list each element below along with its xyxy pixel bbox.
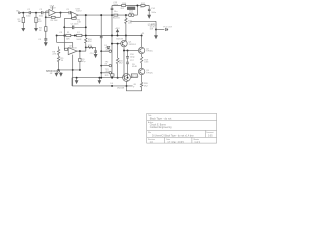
label +35V [115, 28, 121, 30]
svg-text:Sheets: Sheets [193, 138, 199, 141]
node bias top [127, 50, 129, 52]
wire mid rail [57, 35, 142, 37]
label under rail [117, 39, 124, 41]
svg-text:PL1 OUT: PL1 OUT [163, 26, 172, 28]
node x86 y47 [85, 46, 87, 48]
node x112 y43 [111, 43, 113, 45]
label U1B [76, 8, 83, 12]
label R10 [88, 39, 93, 43]
resistor R14 on bus [114, 14, 118, 16]
svg-text:1.0: 1.0 [150, 142, 154, 144]
wire feedback U1A [46, 16, 61, 18]
wire C5 to U1B [70, 12, 73, 14]
label 1N4148 [117, 88, 125, 90]
wire C2 to C3 [31, 12, 42, 14]
svg-text:22K: 22K [52, 54, 56, 56]
label RL1 [129, 11, 134, 15]
svg-text:F2: F2 [77, 32, 80, 34]
svg-text:C3: C3 [39, 9, 43, 11]
label C6 [71, 24, 80, 26]
wire left fb vertical [63, 18, 65, 49]
label R20 [144, 83, 149, 87]
wire x112 vertical [111, 15, 113, 78]
node bus x112 [111, 14, 113, 16]
wire U2 vplus pin [72, 42, 74, 47]
wire R19 to Q3 [141, 63, 143, 68]
node x117 bottom [117, 77, 119, 79]
node rail x126 [125, 35, 127, 37]
diode D3 arrow [98, 78, 101, 84]
capacitor C11 [100, 36, 103, 37]
node junction A [22, 12, 24, 14]
label F1 [59, 32, 70, 41]
svg-text:C4: C4 [38, 39, 42, 41]
node output junction [155, 29, 157, 31]
label TP1 [105, 47, 110, 51]
node rail x117 [117, 35, 119, 37]
wire output down [155, 21, 157, 29]
resistor R1 [22, 17, 24, 22]
connector PL2 port [57, 70, 60, 73]
node fb rail [63, 35, 65, 37]
svg-text:Caldwell Engineering: Caldwell Engineering [150, 126, 172, 129]
wire R20 corner [126, 86, 141, 91]
wire y47 right [86, 46, 96, 48]
wire Q2 base from bias [124, 50, 138, 52]
resistor R6 [72, 18, 76, 20]
node Q1 emitter base wire [123, 50, 125, 52]
ground output [155, 36, 158, 39]
wire stub A [101, 50, 109, 52]
svg-text:D:\Users\C\ Black Tiger - d: D:\Users\C\ Black Tiger - do not v1.4.ds… [152, 135, 194, 138]
node x112 y77 [111, 77, 113, 79]
svg-text:22K: 22K [128, 23, 132, 25]
node rail stub C [100, 72, 102, 74]
wire U1B plus loop [64, 17, 76, 19]
wire U2 vminus pin [72, 55, 74, 86]
wire R2 to ground [35, 23, 37, 28]
svg-text:100n: 100n [39, 16, 44, 18]
node rail x64 [74, 35, 76, 37]
capacitor C7 on minus input [65, 48, 68, 50]
wire corner down to C10 [95, 47, 97, 51]
node y70 right [79, 69, 81, 71]
wire corner down x149 [148, 6, 150, 10]
label C15 [105, 75, 110, 77]
capacitor C2 [29, 11, 30, 14]
wire x137 vertical [136, 6, 138, 16]
node U1A fb [45, 16, 47, 18]
node x86 rail [85, 35, 87, 37]
label Q4 [132, 76, 139, 78]
relay contact circles [129, 14, 134, 17]
wire fb node down [45, 17, 47, 26]
node y77 x76 [76, 77, 78, 79]
node junction B [35, 12, 37, 14]
label U2 [69, 45, 77, 49]
capacitor C3 [42, 11, 43, 14]
svg-text:47K: 47K [88, 41, 92, 43]
svg-text:Black Tiger - do not: Black Tiger - do not [150, 118, 172, 121]
testpoint TP1 [109, 50, 111, 52]
transistor Q3 [138, 68, 144, 74]
wire R3 to C4 [45, 31, 47, 39]
fuse F1 [66, 34, 71, 36]
svg-text:BD140: BD140 [132, 76, 139, 78]
label Q3 [146, 70, 154, 74]
wire output feed [130, 20, 156, 22]
node IN label [16, 11, 19, 13]
ground port A [55, 72, 58, 76]
svg-text:2K2: 2K2 [144, 85, 149, 87]
svg-text:100p: 100p [130, 56, 135, 58]
label C3 [39, 9, 43, 11]
svg-text:TIP42C: TIP42C [146, 72, 154, 74]
wire output gnd [155, 30, 157, 37]
node fb mid [63, 26, 65, 28]
label C4 [38, 39, 42, 41]
svg-text:100n: 100n [151, 12, 156, 14]
label C2 [27, 9, 31, 11]
capacitor C6 series [73, 26, 74, 30]
svg-text:Document: Document [206, 131, 214, 134]
capacitor C15 above rail [110, 74, 114, 76]
label Q1 [129, 42, 137, 46]
transistor Q4 [123, 74, 131, 82]
wire x127 vertical [127, 51, 129, 78]
op-amp U1B [71, 12, 78, 18]
ground C14 [148, 15, 151, 18]
label R15 [128, 20, 133, 24]
node bus x126 [125, 14, 127, 16]
svg-text:10R: 10R [66, 39, 70, 41]
label R1 [18, 19, 22, 23]
wire bus drop x86 [85, 15, 87, 38]
wire comp branch down [79, 51, 81, 58]
label OUT [163, 26, 172, 28]
wire Q1 emitter down [123, 47, 125, 78]
svg-text:4148: 4148 [132, 66, 137, 68]
fuse F2 [77, 34, 82, 36]
svg-text:100n: 100n [26, 16, 31, 18]
label C14 [151, 8, 157, 14]
wire U1A output [56, 12, 61, 14]
capacitor C4 [44, 39, 47, 40]
capacitor C13 [111, 8, 114, 9]
transistor Q1 [121, 40, 127, 46]
capacitor C14 [148, 9, 151, 10]
node chain bottom [58, 69, 60, 71]
svg-text:File: File [148, 132, 151, 134]
svg-text:R4 10K: R4 10K [51, 20, 59, 22]
wire rect left side [71, 78, 73, 86]
label F2 [76, 32, 81, 41]
ground input A [22, 27, 25, 31]
label U1A [50, 4, 57, 9]
node output tap [79, 50, 81, 52]
node U1A output junction [60, 12, 62, 14]
label -35V [133, 84, 137, 88]
wire R6 up to U1B [75, 17, 77, 18]
svg-text:SPKR OUT: SPKR OUT [46, 70, 59, 73]
title block frame [147, 113, 217, 143]
wire node B down [35, 13, 37, 18]
op-amp U1A [49, 9, 56, 15]
label R3 [39, 28, 43, 32]
label R16 [121, 3, 127, 10]
label PL2 bold [46, 70, 59, 75]
svg-text:47K: 47K [38, 21, 42, 23]
resistor R19 [140, 57, 142, 63]
node x86 y27 [85, 26, 87, 28]
label D4 [110, 83, 114, 85]
wire node A down [22, 13, 24, 18]
svg-text:2K2: 2K2 [121, 8, 126, 10]
label R2 [38, 19, 42, 23]
wire main bus [78, 14, 137, 16]
svg-text:1K: 1K [39, 30, 42, 32]
diode D2 arrow [75, 78, 78, 84]
svg-text:10R: 10R [150, 28, 154, 30]
node rail stub B [100, 65, 102, 67]
svg-text:C17: C17 [130, 60, 135, 62]
SECTION: title block [147, 113, 217, 143]
svg-text:47p: 47p [82, 61, 86, 63]
wire stub C [101, 72, 109, 74]
wire U1A power pin [51, 6, 53, 10]
wire top chain [112, 5, 149, 7]
wire y70 [59, 69, 80, 71]
wire Q3 down [141, 75, 143, 83]
svg-text:F1: F1 [67, 32, 70, 34]
capacitor C9 comp [79, 58, 81, 61]
power +35V arrow [116, 30, 118, 36]
svg-text:C5: C5 [66, 9, 70, 11]
wire input to C2 [21, 12, 29, 14]
svg-text:2K2: 2K2 [140, 7, 145, 9]
connector J2 output [166, 28, 168, 30]
node y77 x99 [98, 77, 100, 79]
node x127 bottom [127, 77, 129, 79]
svg-text:C14: C14 [151, 8, 156, 10]
wire Q2 emitter [141, 54, 143, 57]
wire C3 to op-amp U1A [43, 12, 49, 14]
svg-text:1N4148: 1N4148 [117, 88, 125, 90]
capacitor C16 bias [126, 56, 129, 58]
node top x137 [136, 5, 138, 7]
resistor R17 [141, 5, 145, 7]
svg-text:TIP41C: TIP41C [146, 51, 154, 53]
wire rail corner down [56, 36, 58, 43]
svg-text:C10: C10 [90, 53, 95, 55]
wire Q2 collector [141, 36, 143, 48]
diode D1 [107, 46, 110, 48]
label R16 mid [119, 61, 124, 65]
label R8 [52, 51, 56, 55]
node rail left corner [56, 35, 58, 37]
wire bus drop x126 resistor R15 [125, 15, 127, 41]
label R14 [113, 18, 121, 20]
label Q2 [146, 49, 154, 53]
wire to output connector [156, 29, 164, 31]
node bus x86 [85, 14, 87, 16]
ground port B [60, 72, 63, 76]
resistor R9 chain bottom [57, 55, 59, 70]
resistor R16 mid [116, 58, 118, 78]
resistor R4 feedback [51, 16, 55, 18]
wire base rail y77 [72, 77, 123, 79]
resistor R11 [88, 46, 93, 48]
wire x112 top [111, 6, 113, 16]
svg-text:R21: R21 [105, 75, 110, 77]
label L1 bold [148, 24, 158, 31]
svg-text:2K2: 2K2 [119, 63, 124, 65]
capacitor C17 bias [126, 62, 129, 64]
label R17 [140, 3, 146, 9]
wire x101 vertical [100, 15, 102, 78]
label C17 [130, 60, 135, 62]
wire fb vertical to minus input [64, 48, 68, 50]
svg-text:BD139: BD139 [117, 39, 124, 41]
title block column lines [165, 130, 206, 143]
capacitor C10 [94, 51, 97, 52]
wire inverting node down [45, 11, 47, 17]
label TP3 [105, 69, 110, 73]
wire U1A inverting input [46, 10, 49, 12]
wire stub B [101, 65, 109, 67]
wire junction to C5 [61, 12, 70, 14]
label D5 [132, 64, 137, 68]
connector J1 input port [19, 12, 21, 14]
svg-text:4R: 4R [50, 73, 53, 75]
node bus x101 [100, 14, 102, 16]
label 100n below C3 [39, 16, 44, 18]
wire C9 down [79, 62, 81, 70]
testpoint TP3 [109, 72, 111, 74]
svg-text:100R: 100R [76, 39, 81, 41]
svg-text:10u: 10u [114, 11, 118, 13]
wire Q4 emitter [126, 81, 128, 86]
ground C10 [94, 52, 97, 57]
wire bottom rail y86 [72, 85, 133, 87]
node x112 y86 [111, 85, 113, 87]
label C5 [66, 9, 70, 11]
svg-text:NE5534: NE5534 [69, 47, 77, 49]
testpoint TP2 [109, 64, 111, 66]
resistor R2 [35, 17, 37, 22]
transistor Q2 [138, 47, 144, 53]
svg-text:R16: R16 [122, 3, 127, 5]
label R9 [61, 58, 65, 62]
svg-text:-35V: -35V [105, 71, 110, 73]
wire U2 output [77, 50, 86, 52]
svg-text:R11: R11 [88, 45, 93, 47]
ground C4 [44, 43, 47, 46]
svg-text:Date: Date [166, 138, 170, 141]
svg-text:C2: C2 [27, 9, 31, 11]
label C16 [130, 54, 135, 58]
svg-text:+35V: +35V [105, 49, 110, 51]
svg-text:17 Mar 2005: 17 Mar 2005 [167, 141, 184, 144]
relay RL1 coil [127, 7, 135, 10]
node x117 base wire [117, 43, 119, 45]
svg-text:Revision: Revision [148, 139, 155, 141]
svg-text:1M: 1M [18, 21, 21, 23]
svg-text:2N5551: 2N5551 [129, 44, 137, 46]
node Q4 emitter [126, 85, 128, 87]
label 100n below C2 [26, 16, 31, 18]
label +V node [141, 33, 145, 35]
wire R1 to ground [22, 23, 24, 28]
svg-text:V: V [133, 86, 135, 88]
wire output junction down to feedback [60, 13, 62, 18]
label R11 [88, 45, 93, 47]
svg-text:0.05: 0.05 [208, 136, 213, 138]
resistor R10 [85, 38, 87, 48]
svg-text:TL072: TL072 [76, 10, 83, 12]
svg-text:0.33: 0.33 [144, 62, 149, 64]
capacitor C5 [69, 11, 70, 14]
svg-text:R14 1K: R14 1K [113, 18, 121, 20]
svg-text:TL072: TL072 [50, 8, 57, 10]
resistor R20 [140, 82, 142, 87]
label C9 [82, 59, 86, 63]
svg-text:C8: C8 [59, 32, 63, 34]
node rail stub A [100, 50, 102, 52]
label Q4 box [131, 74, 137, 78]
label TP2 [105, 62, 110, 66]
svg-text:D4: D4 [110, 83, 114, 85]
label R19 [144, 59, 149, 63]
svg-text:1K: 1K [61, 60, 64, 62]
wire C14 down [148, 11, 150, 16]
ground input B [35, 27, 38, 31]
wire y27 branch [64, 26, 86, 28]
node rail x141 [141, 35, 143, 37]
wire x117 vertical [117, 44, 119, 58]
resistor R8 chain top [57, 47, 59, 55]
wire y42 [57, 41, 73, 43]
node vminus joint [72, 69, 74, 71]
wire base Q1 [112, 43, 121, 45]
label R4 [51, 20, 59, 22]
wire x101 joint [100, 77, 102, 79]
label R6 [77, 19, 81, 23]
label C10 [90, 53, 95, 55]
node rail x112 [111, 35, 113, 37]
svg-text:C6 100n: C6 100n [71, 24, 80, 26]
title block row lines [147, 120, 217, 137]
resistor R3 [45, 27, 47, 32]
resistor R16 [122, 5, 126, 7]
wire Q1 collector [125, 36, 127, 42]
label C13 [113, 2, 118, 13]
wire C4 to ground [45, 40, 47, 43]
svg-text:1 of 1: 1 of 1 [194, 142, 200, 144]
svg-text:+35V: +35V [115, 28, 121, 30]
op-amp U2 [68, 48, 77, 55]
label D1 [104, 45, 108, 47]
wire x86 to output [85, 47, 87, 51]
